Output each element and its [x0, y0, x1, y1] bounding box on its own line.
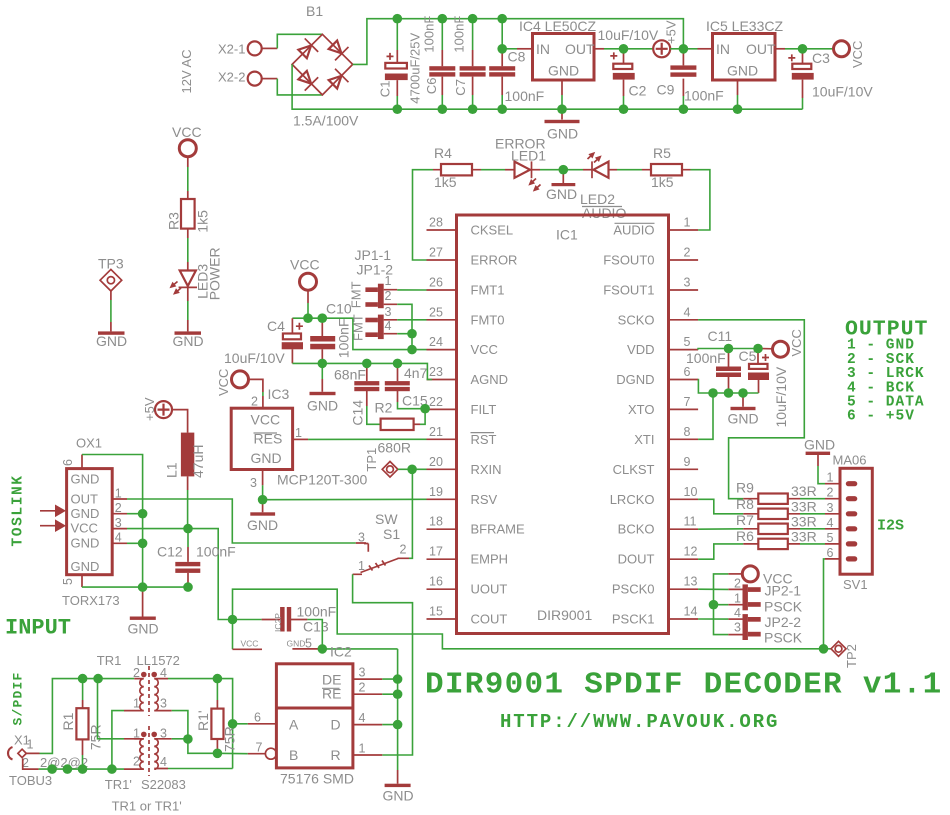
svg-text:MA06: MA06 [833, 453, 867, 468]
svg-text:4: 4 [359, 711, 366, 725]
svg-text:EMPH: EMPH [471, 552, 509, 567]
svg-text:4700uF/25V: 4700uF/25V [408, 33, 423, 104]
svg-text:GND: GND [548, 63, 579, 79]
svg-text:IC5 LE33CZ: IC5 LE33CZ [706, 18, 783, 34]
transformer TR1 [97, 653, 180, 716]
wire SCKO pin4 to R9 [698, 320, 804, 499]
svg-text:100nF: 100nF [297, 604, 337, 620]
svg-text:33R: 33R [791, 513, 817, 529]
supply symbol VCC (C4) [290, 257, 320, 291]
wire R3 to LED3 [187, 229, 189, 238]
svg-text:JP1-1: JP1-1 [355, 247, 392, 263]
svg-text:IC3: IC3 [268, 386, 290, 402]
svg-text:16: 16 [429, 575, 443, 589]
svg-text:13: 13 [684, 575, 698, 589]
svg-text:S22083: S22083 [141, 777, 186, 792]
TOSLINK receiver OX1 [61, 436, 127, 609]
svg-text:6: 6 [61, 459, 75, 466]
svg-text:2: 2 [684, 246, 691, 260]
inductor L1 [164, 410, 207, 529]
svg-text:R4: R4 [434, 145, 452, 161]
svg-text:IN: IN [716, 41, 730, 57]
svg-text:GND: GND [287, 639, 306, 649]
svg-text:26: 26 [429, 276, 443, 290]
resistor R6 [736, 528, 825, 549]
svg-text:R1': R1' [195, 710, 211, 731]
supply symbol VCC (R3) [172, 124, 202, 157]
svg-text:4: 4 [160, 755, 167, 769]
svg-text:RST: RST [471, 432, 497, 447]
jumper JP1-2 [351, 305, 427, 341]
svg-text:VCC: VCC [471, 342, 498, 357]
svg-text:2: 2 [827, 486, 834, 500]
svg-text:7: 7 [256, 741, 263, 755]
svg-text:TR1 or TR1': TR1 or TR1' [112, 798, 182, 813]
resistor R2 [375, 400, 426, 431]
svg-text:21: 21 [429, 425, 443, 439]
svg-text:TP2: TP2 [844, 644, 859, 668]
wire S1 pin2 to RXIN [409, 469, 412, 558]
svg-text:GND: GND [383, 788, 414, 804]
svg-text:LRCKO: LRCKO [610, 492, 655, 507]
ground at LED junction [546, 170, 577, 202]
connector X2-2 [218, 70, 277, 86]
test point TP2 [824, 641, 860, 668]
pin stubs left IC1 [427, 230, 457, 619]
svg-text:R: R [331, 747, 341, 763]
svg-text:8: 8 [684, 425, 691, 439]
svg-text:20: 20 [429, 455, 443, 469]
wire TR1 pin1 down [112, 711, 124, 770]
wire OX1 pin5 GND rail [82, 586, 188, 588]
svg-text:15: 15 [429, 605, 443, 619]
svg-text:47uH: 47uH [190, 445, 206, 478]
svg-text:X2-2: X2-2 [218, 70, 245, 85]
wire R4 to LED1 [481, 169, 505, 171]
svg-text:SV1: SV1 [843, 577, 868, 592]
svg-text:75176 SMD: 75176 SMD [280, 771, 354, 787]
svg-text:VCC: VCC [172, 124, 202, 140]
svg-text:3: 3 [250, 476, 257, 490]
svg-text:JP2-1: JP2-1 [765, 583, 802, 599]
svg-text:BFRAME: BFRAME [471, 522, 526, 537]
svg-text:3: 3 [160, 697, 167, 711]
pin numbers left IC1 [429, 216, 443, 619]
svg-text:2: 2 [385, 289, 392, 303]
resistor R8 [736, 496, 825, 519]
ground above MA06 [804, 437, 835, 484]
wire bridge- to bottom rail [292, 64, 802, 109]
svg-text:1: 1 [295, 426, 302, 440]
svg-text:100nF: 100nF [335, 318, 351, 358]
svg-text:27: 27 [429, 246, 443, 260]
svg-text:4: 4 [734, 606, 741, 620]
wire LED3 to ground [187, 287, 189, 301]
svg-text:18: 18 [429, 515, 443, 529]
junction dots VDD/DGND [724, 344, 734, 354]
wire S1 pin1 to IC2 R [353, 574, 413, 755]
svg-text:IC2: IC2 [330, 644, 352, 660]
svg-text:GND: GND [251, 450, 282, 466]
svg-text:AUDIO: AUDIO [582, 205, 626, 221]
svg-text:R3: R3 [166, 212, 182, 230]
wire OX1 pin1 OUT to switch [127, 499, 356, 543]
svg-text:HTTP://WWW.PAVOUK.ORG: HTTP://WWW.PAVOUK.ORG [500, 711, 779, 733]
svg-text:VCC: VCC [850, 41, 865, 68]
svg-text:11: 11 [684, 515, 697, 529]
svg-text:UOUT: UOUT [471, 582, 508, 597]
wire TR1' pin1 up [98, 679, 125, 739]
svg-text:GND: GND [71, 506, 100, 521]
resistor R5 [642, 145, 691, 190]
svg-text:12V AC: 12V AC [179, 49, 194, 93]
capacitor C3 [788, 49, 873, 109]
svg-text:C1: C1 [378, 81, 393, 98]
regulator IC5 LE33CZ [706, 18, 783, 80]
svg-text:GND: GND [71, 536, 100, 551]
junction dots TOSLINK [138, 509, 148, 519]
svg-text:10uF/10V: 10uF/10V [773, 366, 789, 427]
svg-text:100nF: 100nF [422, 16, 437, 53]
svg-text:R6: R6 [736, 528, 754, 544]
reset supervisor IC3 [231, 408, 367, 487]
svg-text:ERROR: ERROR [471, 253, 518, 268]
svg-text:PSCK: PSCK [764, 599, 803, 615]
connector X1 [8, 732, 88, 788]
ground under IC4 [545, 109, 580, 141]
svg-text:LED1: LED1 [511, 147, 546, 163]
wire XTI pin8 to DGND [698, 393, 713, 439]
svg-text:B: B [289, 747, 298, 763]
AGND rail wire to pin23 [292, 363, 432, 379]
svg-text:C3: C3 [812, 50, 830, 66]
svg-text:100nF: 100nF [684, 88, 724, 104]
ground under OX1 [128, 587, 159, 636]
svg-text:IC4 LE50CZ: IC4 LE50CZ [519, 18, 596, 34]
wire X1 pin1 to input rail [40, 679, 135, 754]
ground under IC2 [383, 770, 414, 804]
svg-text:6: 6 [254, 711, 261, 725]
svg-text:10uF/10V: 10uF/10V [598, 27, 659, 43]
capacitor C11 [686, 328, 741, 393]
svg-text:GND: GND [173, 333, 204, 349]
svg-text:CKSEL: CKSEL [471, 223, 514, 238]
svg-text:XTI: XTI [634, 432, 654, 447]
resistor R1' [195, 679, 238, 754]
ground AGND [307, 363, 338, 413]
svg-text:IN: IN [536, 41, 550, 57]
supply symbol +5V [653, 20, 678, 57]
svg-text:9: 9 [684, 455, 691, 469]
svg-text:C4: C4 [267, 318, 285, 334]
svg-text:I2S: I2S [877, 518, 904, 535]
svg-text:FMT0: FMT0 [471, 312, 505, 327]
resistor R7 [736, 512, 825, 534]
svg-text:1k5: 1k5 [195, 210, 211, 233]
wire VCC to R3 [187, 157, 189, 167]
wire LED2 to R5 [617, 169, 642, 171]
regulator IC4 LE50CZ [519, 18, 596, 80]
svg-text:14: 14 [684, 605, 698, 619]
svg-text:FMT: FMT [351, 314, 366, 341]
svg-text:4: 4 [684, 305, 691, 319]
svg-text:7: 7 [684, 395, 691, 409]
svg-text:TR1': TR1' [105, 777, 132, 792]
svg-text:PSCK: PSCK [764, 630, 803, 646]
wire +5V to IC5 [670, 48, 697, 50]
svg-text:VCC: VCC [71, 521, 98, 536]
svg-text:1: 1 [827, 471, 834, 485]
capacitor C15 [385, 363, 428, 409]
supply symbol VCC top [834, 41, 866, 68]
svg-text:B1: B1 [306, 3, 323, 19]
capacitor C9 [657, 49, 724, 109]
svg-text:5: 5 [61, 578, 75, 585]
svg-text:GND: GND [547, 126, 578, 142]
LED LED2 AUDIO [580, 150, 626, 221]
svg-text:3: 3 [385, 305, 392, 319]
svg-text:3: 3 [115, 516, 122, 530]
svg-text:GND: GND [247, 517, 278, 533]
svg-text:4: 4 [385, 319, 392, 333]
wire TR1 pin4 to R1' / IC2 A [168, 679, 248, 769]
svg-text:12: 12 [684, 545, 698, 559]
svg-text:OUT: OUT [565, 41, 595, 57]
svg-text:19: 19 [429, 485, 443, 499]
pin header MA06 / SV1 [825, 453, 872, 592]
svg-text:28: 28 [429, 216, 443, 230]
svg-text:5: 5 [684, 335, 691, 349]
wire IC5 OUT to VCC [775, 48, 785, 50]
svg-text:DGND: DGND [616, 372, 654, 387]
svg-text:17: 17 [429, 545, 443, 559]
svg-text:3: 3 [684, 276, 691, 290]
svg-text:1: 1 [734, 591, 741, 605]
diode D-topright [326, 38, 348, 60]
resistor R4 [433, 145, 481, 190]
wires IC2 DE/RE/D to gnd net [382, 649, 397, 770]
svg-text:AUDIO: AUDIO [613, 223, 654, 238]
junction dots input section [78, 674, 88, 684]
svg-text:75R: 75R [88, 724, 104, 750]
capacitor C1 [378, 19, 423, 110]
svg-text:C6: C6 [424, 77, 439, 94]
svg-text:D: D [331, 717, 341, 733]
transceiver IC2 75176 [248, 664, 383, 787]
wire TR1'/TR1 pin3 to R1' bottom [172, 739, 248, 754]
svg-text:POWER: POWER [207, 247, 223, 300]
svg-text:S/PDIF: S/PDIF [11, 671, 26, 725]
pin names right IC1 [603, 223, 654, 627]
svg-text:VDD: VDD [627, 342, 654, 357]
svg-text:IC2P: IC2P [273, 613, 283, 632]
connector X2-1 [218, 41, 277, 56]
svg-text:1: 1 [359, 742, 366, 756]
svg-text:25: 25 [429, 305, 443, 319]
svg-text:TORX173: TORX173 [62, 593, 120, 608]
wire LED1 to junction [540, 169, 583, 171]
bridge rectifier B1 [292, 3, 359, 129]
svg-text:5: 5 [305, 637, 312, 651]
ground under IC3 [247, 500, 278, 533]
svg-text:33R: 33R [791, 498, 817, 514]
pin numbers right IC1 [684, 216, 698, 619]
LED LED3 POWER [168, 247, 223, 300]
wire OX1 pin6 ground loop [82, 455, 143, 588]
bottom input rail [39, 768, 124, 770]
wire bridge+ to top rail [353, 19, 684, 65]
svg-text:PSCK0: PSCK0 [612, 582, 655, 597]
svg-text:VCC: VCC [241, 639, 259, 649]
wire OX1 pin2 / pin4 [127, 514, 143, 544]
svg-text:GND: GND [727, 63, 758, 79]
LED LED1 ERROR [495, 136, 546, 194]
svg-text:C14: C14 [350, 400, 366, 426]
svg-text:C8: C8 [508, 49, 526, 65]
svg-text:SW: SW [375, 511, 398, 527]
svg-text:4n7: 4n7 [404, 365, 428, 381]
wire MA06 pin6 to +5V rail [824, 559, 826, 649]
wire OX1 pin3 VCC to +5V net [127, 529, 233, 620]
svg-text:GND: GND [804, 437, 835, 453]
junction dot LED row [559, 165, 569, 175]
test point TP3 [98, 255, 124, 331]
pin stubs right IC1 [669, 230, 699, 619]
svg-text:GND: GND [728, 411, 759, 427]
svg-text:2: 2 [251, 395, 258, 409]
svg-text:TP1: TP1 [364, 448, 379, 472]
svg-text:RSV: RSV [471, 492, 498, 507]
svg-text:3: 3 [734, 620, 741, 634]
svg-text:75R: 75R [222, 726, 238, 752]
svg-text:R8: R8 [736, 496, 754, 512]
svg-text:10uF/10V: 10uF/10V [224, 350, 285, 366]
svg-text:AGND: AGND [471, 372, 509, 387]
svg-text:100nF: 100nF [505, 88, 545, 104]
diode D-topleft [296, 38, 318, 60]
resistor R9 [736, 480, 825, 504]
svg-text:GND: GND [71, 559, 100, 574]
svg-text:X2-1: X2-1 [218, 42, 245, 57]
op-amp-style main IC box IC1 [457, 215, 669, 634]
svg-text:2: 2 [133, 755, 140, 769]
svg-text:24: 24 [429, 335, 443, 349]
svg-text:+5V: +5V [664, 20, 679, 44]
svg-text:VCC: VCC [216, 369, 231, 396]
svg-text:FILT: FILT [471, 402, 497, 417]
svg-text:10: 10 [684, 485, 698, 499]
svg-text:R9: R9 [736, 480, 754, 496]
svg-text:GND: GND [71, 472, 100, 487]
svg-text:VCC: VCC [251, 412, 281, 428]
svg-text:CLKST: CLKST [613, 462, 655, 477]
transformer TR1' [105, 726, 186, 813]
svg-text:FMT: FMT [349, 281, 364, 308]
jumper JP1-1 [349, 247, 427, 350]
supply symbol VCC (C5) [773, 329, 805, 357]
wire BCKO pin11 to R7 [698, 528, 743, 530]
wire X2-2 to bridge bottom [277, 79, 322, 95]
svg-text:IC1: IC1 [556, 227, 578, 243]
svg-text:2: 2 [734, 576, 741, 590]
svg-text:FSOUT0: FSOUT0 [603, 253, 654, 268]
svg-text:OUT: OUT [71, 492, 99, 507]
svg-text:10uF/10V: 10uF/10V [812, 84, 873, 100]
svg-text:+5V: +5V [142, 397, 157, 421]
IC5 GND lead [737, 80, 739, 95]
svg-text:2: 2 [359, 681, 366, 695]
wire C8 to IC4 IN [502, 48, 517, 50]
svg-text:LL1572: LL1572 [137, 653, 180, 668]
wire VCC to IC3 pin2 [249, 379, 263, 392]
svg-text:R5: R5 [653, 145, 671, 161]
pin names left IC1 [471, 223, 526, 627]
jumper JP2-2 [698, 606, 803, 646]
capacitor C13 [233, 604, 337, 635]
svg-text:GND: GND [128, 620, 159, 636]
wire P1 to RXIN pin20 [398, 468, 427, 470]
diode D-bottomleft [296, 68, 318, 90]
svg-text:3: 3 [827, 501, 834, 515]
svg-text:C11: C11 [708, 328, 733, 344]
svg-text:XTO: XTO [628, 402, 655, 417]
svg-text:C9: C9 [657, 82, 675, 98]
junction dots top rails [393, 14, 403, 24]
svg-text:33R: 33R [791, 529, 817, 545]
svg-text:R1: R1 [60, 712, 76, 730]
svg-text:R7: R7 [736, 512, 754, 528]
IC4 GND lead [561, 80, 563, 95]
svg-text:DIR9001: DIR9001 [537, 607, 592, 623]
svg-text:JP2-2: JP2-2 [765, 614, 802, 630]
wire DGND pin6 rail [698, 380, 758, 394]
test point P1 [364, 439, 411, 477]
svg-text:VCC: VCC [290, 257, 320, 273]
svg-text:3: 3 [359, 666, 366, 680]
ground under LED3 [173, 331, 204, 349]
wire X2-1 to bridge top [277, 34, 322, 48]
capacitor C6 [422, 16, 456, 110]
wire VCC rail to pin24 [307, 290, 309, 303]
svg-text:100nF: 100nF [686, 350, 726, 366]
junction dots VCC/AGND rails [303, 313, 313, 323]
capacitor C5 [739, 348, 790, 428]
svg-text:S1: S1 [383, 526, 400, 542]
wire TR1 pin3 to TR1' pin3 [172, 711, 188, 739]
wire R5 to pin1 AUDIO [691, 170, 710, 230]
capacitor C2 [598, 27, 659, 109]
svg-text:C2: C2 [629, 83, 647, 99]
svg-text:C12: C12 [157, 544, 183, 560]
svg-text:TOSLINK: TOSLINK [11, 474, 27, 546]
svg-text:R2: R2 [375, 400, 393, 416]
svg-text:INPUT: INPUT [5, 616, 71, 641]
svg-text:VCC: VCC [789, 329, 804, 356]
svg-text:DIR9001 SPDIF DECODER v1.1: DIR9001 SPDIF DECODER v1.1 [425, 668, 942, 703]
wire ERROR net [413, 170, 434, 260]
svg-text:5: 5 [827, 531, 834, 545]
svg-text:OX1: OX1 [76, 436, 102, 451]
svg-text:FSOUT1: FSOUT1 [603, 283, 654, 298]
svg-text:GND: GND [307, 398, 338, 414]
svg-text:BCKO: BCKO [618, 522, 655, 537]
jumper JP2-1 [698, 576, 803, 614]
capacitor C7 [452, 16, 486, 110]
svg-text:68nF: 68nF [334, 367, 366, 383]
svg-text:6: 6 [827, 546, 834, 560]
svg-text:6: 6 [684, 365, 691, 379]
switch S1 [353, 511, 409, 574]
